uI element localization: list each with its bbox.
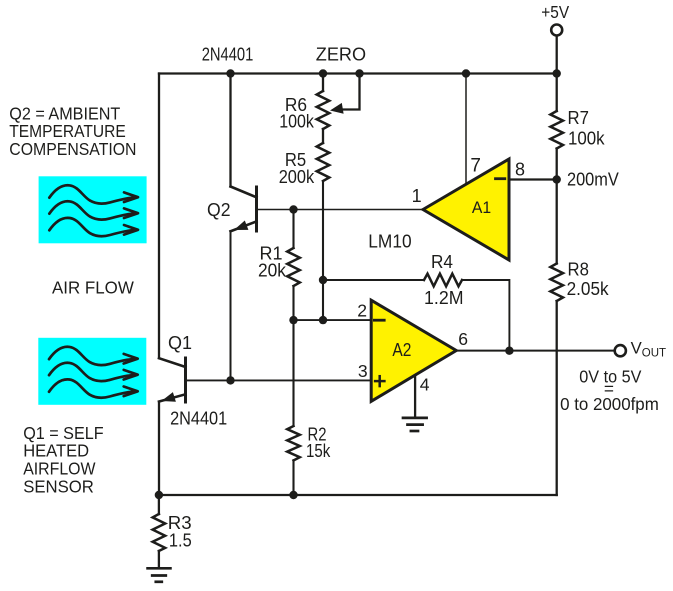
wire: R6 top lead from rail [322, 74, 324, 92]
A1 minus sign pin 8 [496, 177, 505, 180]
transistor Q2 body [231, 187, 257, 232]
resistor R3 [153, 514, 166, 551]
svg-text:20k: 20k [258, 261, 287, 281]
wire: left vertical rail upper (top rail to Q1 collector) [158, 74, 160, 359]
transistor Q1 emitter arrow [162, 392, 176, 402]
transistor Q2 emitter arrow [234, 221, 248, 231]
svg-text:6: 6 [458, 329, 468, 349]
svg-text:R8: R8 [568, 259, 589, 279]
svg-text:4: 4 [420, 375, 430, 395]
svg-text:AIRFLOW: AIRFLOW [23, 458, 96, 478]
svg-text:100k: 100k [279, 112, 315, 132]
svg-text:A1: A1 [472, 198, 491, 217]
ground (A2 pin 4) [403, 418, 427, 431]
node: top rail / R6 junction [319, 69, 327, 77]
node: top rail / R6 wiper junction [355, 69, 363, 77]
svg-text:8: 8 [515, 159, 525, 179]
wire: R6 wiper connection to rail [343, 74, 360, 110]
wire: bottom rail [159, 494, 557, 496]
wire: A1 pin 7 from top rail [465, 74, 467, 185]
air flow box lower [38, 338, 146, 405]
wire: top rail +5V bus [159, 72, 557, 74]
resistor R2 [287, 426, 300, 460]
svg-text:AIR FLOW: AIR FLOW [52, 278, 134, 298]
resistor R1 [287, 248, 300, 286]
+5V terminal [551, 25, 562, 36]
wire: R3 top lead [158, 495, 160, 514]
svg-text:V: V [631, 338, 643, 357]
node: top rail / A1 pin7 junction [462, 69, 470, 77]
op-amp A1 (LM10 reference amp) [423, 159, 509, 260]
ground (R3) [148, 568, 171, 582]
airflow wave 4 [49, 347, 138, 365]
wire: R4 left lead from pin2 node [323, 279, 424, 281]
svg-text:COMPENSATION: COMPENSATION [9, 139, 136, 159]
wire: A2 pin 4 to ground [414, 376, 416, 416]
svg-text:1: 1 [412, 186, 422, 206]
op-amp A2 [371, 300, 456, 401]
svg-text:A2: A2 [392, 340, 411, 360]
svg-text:7: 7 [470, 155, 481, 176]
svg-text:2N4401: 2N4401 [202, 45, 254, 65]
svg-text:1.5: 1.5 [169, 531, 192, 551]
svg-text:0 to 2000fpm: 0 to 2000fpm [560, 394, 659, 414]
wire: left vertical rail lower (Q1 emitter to bottom rail) [158, 402, 160, 495]
node: Q2 emitter / Q1 base junction [226, 376, 234, 384]
airflow wave 5 [49, 363, 138, 381]
svg-text:3: 3 [358, 361, 368, 381]
node: R4 / A2 output junction [505, 347, 513, 355]
resistor R5 [317, 143, 330, 181]
A2 minus sign pin 2 [374, 319, 384, 322]
wire: R7 bottom lead to 200mV node [556, 149, 558, 180]
svg-text:SENSOR: SENSOR [23, 477, 94, 497]
svg-text:R4: R4 [431, 252, 453, 272]
airflow wave 2 [49, 201, 138, 219]
wire: R7 top lead from rail [556, 74, 558, 112]
wire: R3 bottom lead to ground [158, 551, 160, 567]
wire: R5 bottom lead down to A2 pin2 node [322, 181, 324, 320]
wire: R6/R5 interconnect [322, 129, 324, 143]
svg-text:2: 2 [357, 300, 367, 320]
wire: R1 top lead from Q2 base node [292, 210, 294, 249]
wire: A2 inverting input (pin 2) [294, 319, 372, 321]
svg-text:100k: 100k [568, 129, 606, 149]
node: R1 bottom / pin2 wire junction [289, 316, 297, 324]
wire: Q1 base to A2 pin 3 [186, 379, 372, 381]
wire: Q2 emitter down to Q1 base node [230, 231, 232, 380]
resistor R7 [550, 111, 563, 149]
svg-text:200k: 200k [279, 167, 315, 187]
node: bottom rail / R2 junction [289, 491, 297, 499]
svg-text:ZERO: ZERO [316, 45, 366, 65]
wire: Q2 base to A1 output (pin 1) [257, 209, 424, 211]
node: bottom rail / R3 junction [155, 491, 163, 499]
svg-text:OUT: OUT [642, 346, 667, 360]
airflow wave 1 [49, 185, 138, 203]
transistor Q1 body [159, 358, 186, 402]
node: R5 bottom / R4 junction [319, 276, 327, 284]
svg-text:2N4401: 2N4401 [170, 408, 227, 429]
wire: Q2 collector to top rail [229, 74, 231, 187]
svg-text:R7: R7 [568, 108, 589, 128]
airflow wave 3 [49, 218, 138, 236]
svg-text:1.2M: 1.2M [424, 288, 464, 308]
wire: R2 bottom lead to bottom rail [292, 460, 294, 495]
wire: A2 output to Vout terminal [456, 350, 614, 352]
node: 200mV node (R7/R8/pin8) [553, 175, 561, 183]
potentiometer R6 wiper arrow [330, 103, 344, 114]
svg-text:200mV: 200mV [567, 170, 619, 190]
wire: R8 bottom lead to bottom rail [556, 301, 558, 495]
resistor R8 [550, 264, 563, 302]
node: R5 bottom / pin2 wire junction [319, 316, 327, 324]
svg-text:LM10: LM10 [368, 231, 411, 251]
airflow wave 6 [49, 379, 138, 397]
Vout terminal [615, 345, 626, 356]
svg-text:15k: 15k [306, 441, 331, 461]
svg-text:Q1: Q1 [168, 333, 192, 353]
resistor R6 (potentiometer) [317, 91, 330, 129]
node: Q2 base / R1 junction [289, 205, 297, 213]
svg-text:+5V: +5V [541, 2, 569, 22]
wire: R8 top lead from 200mV node [556, 180, 558, 264]
resistor R4 (horizontal) [424, 274, 462, 287]
wire: R1 bottom lead / R2 top lead [292, 286, 294, 426]
wire: R4 right lead down to A2 output [462, 280, 509, 351]
node: top rail / +5V junction [553, 69, 561, 77]
node: top rail / Q2 collector junction [226, 69, 234, 77]
svg-text:2.05k: 2.05k [567, 279, 610, 299]
air flow box upper [39, 176, 147, 243]
wire: A1 pin 8 to 200mV node [509, 178, 557, 180]
A2 plus sign pin 3 [375, 380, 384, 383]
svg-text:Q2: Q2 [207, 200, 231, 220]
